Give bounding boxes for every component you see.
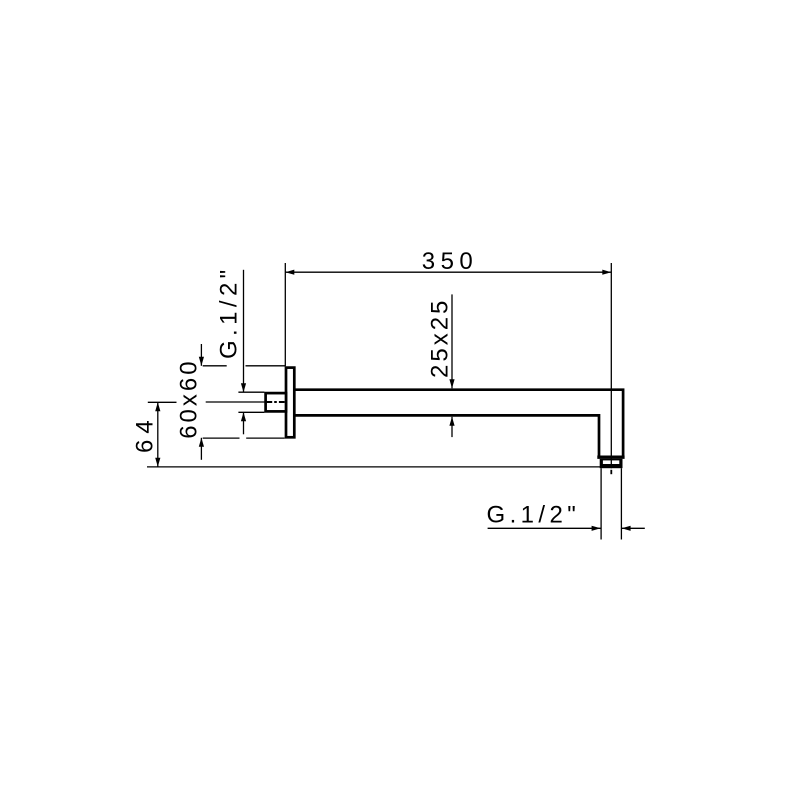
dimension G.1/2 (outlet): right shaft	[622, 527, 645, 529]
centerline dash-dot inside stub: dash	[279, 401, 285, 403]
dimension 25x25: up arrowhead	[449, 417, 454, 426]
dimension 350: right extension line / outlet centerline	[610, 263, 612, 468]
dimension 60x60: upper shaft	[200, 344, 202, 366]
dimension 64: dim line	[157, 402, 159, 467]
60x60 top extension line segment b	[246, 365, 286, 367]
outlet collar nut (filled)	[600, 459, 623, 468]
shower arm outline: top edge and elbow right edge	[294, 390, 623, 457]
dimension 25x25: shaft below arm	[451, 417, 453, 437]
dimension 60x60: lower shaft	[200, 438, 202, 460]
flange plate 60x60 (side view)	[286, 368, 294, 438]
dimension 64: top arrowhead	[155, 402, 160, 411]
shower arm outline: bottom edge and elbow left edge	[294, 415, 599, 457]
centerline dash-dot inside stub: dot	[274, 401, 277, 403]
dimension 350: dim line	[285, 271, 611, 273]
dimension 64: top tick at arm centerline	[148, 401, 177, 403]
svg-text:G.1/2": G.1/2"	[215, 265, 242, 359]
dimension G.1/2 (wall stub): down arrowhead	[241, 383, 246, 392]
wall stub G.1/2 nipple	[266, 393, 286, 411]
svg-text:60x60: 60x60	[176, 358, 203, 438]
dimension G.1/2 (outlet): left shaft	[488, 527, 601, 529]
dimension G.1/2 (wall stub): upper shaft	[243, 270, 245, 392]
wall stub bottom extension line	[238, 411, 264, 413]
dimension 64: bottom arrowhead	[155, 458, 160, 467]
dimension G.1/2 (outlet): right arrowhead pointing right	[592, 526, 601, 531]
dimension 64: bottom reference line to outlet	[147, 466, 600, 468]
dimension 25x25: down arrowhead	[449, 379, 454, 388]
dimension 350: left extension line	[284, 263, 286, 366]
dimension 350: left arrowhead	[285, 270, 294, 275]
outlet left extension line	[600, 468, 602, 539]
svg-text:25x25: 25x25	[426, 298, 453, 378]
dimension 350: right arrowhead	[602, 270, 611, 275]
wall stub top extension line	[238, 391, 264, 393]
dimension G.1/2 (wall stub): lower shaft	[243, 412, 245, 434]
60x60 top extension line segment a	[203, 365, 227, 367]
dimension 60x60: up arrowhead	[199, 438, 204, 447]
dimension 60x60: down arrowhead	[199, 357, 204, 366]
centerline dash-dot inside stub: dash	[267, 401, 273, 403]
outlet collar nut window	[603, 460, 619, 464]
svg-text:350: 350	[422, 248, 479, 275]
svg-text:64: 64	[132, 414, 159, 453]
60x60 bottom extension line segment b	[246, 437, 284, 439]
dimension 25x25: shaft above arm	[451, 294, 453, 388]
outlet tube bottom edge	[597, 456, 624, 459]
arm centerline left segment	[206, 401, 265, 403]
outlet right extension line	[620, 468, 622, 539]
svg-text:G.1/2": G.1/2"	[487, 501, 581, 528]
outlet centerline dash below collar	[610, 470, 612, 474]
60x60 bottom extension line segment a	[203, 437, 240, 439]
dimension G.1/2 (wall stub): up arrowhead	[241, 412, 246, 421]
dimension G.1/2 (outlet): left arrowhead pointing left	[622, 526, 631, 531]
